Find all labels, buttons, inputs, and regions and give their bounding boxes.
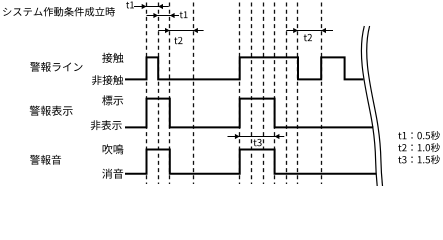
dimension t1 row2 bbox=[147, 15, 180, 17]
dimension t2 left bbox=[158, 30, 203, 32]
label t3 label bbox=[253, 139, 256, 146]
label hi-sesshoku bbox=[92, 75, 102, 85]
label t2 label right bbox=[304, 34, 307, 41]
label hi-hyouji bbox=[91, 120, 101, 130]
timing grid dashed lines bbox=[147, 3, 322, 185]
label t1 label row2 bbox=[180, 12, 183, 19]
label sesshoku bbox=[102, 53, 112, 63]
label suimei bbox=[103, 144, 113, 154]
label legend t3 bbox=[398, 156, 401, 163]
label keihou hyouji bbox=[30, 106, 40, 116]
dimension t3 bbox=[228, 136, 285, 138]
label shouon bbox=[102, 169, 112, 179]
label legend t1 bbox=[398, 132, 401, 139]
waveform keihou hyouji (alarm display signal) bbox=[125, 99, 374, 128]
dimension t1 row1 bbox=[134, 6, 169, 8]
label keihou line bbox=[30, 62, 40, 72]
label t2 label left bbox=[174, 37, 177, 44]
label legend t2 bbox=[398, 144, 401, 151]
label title system joken bbox=[3, 8, 11, 16]
label keihou on bbox=[30, 155, 40, 165]
waveform break mark curves bbox=[361, 26, 382, 186]
waveform keihou on (alarm sound signal) bbox=[125, 150, 377, 174]
waveform keihou line (alarm line signal) bbox=[125, 57, 363, 79]
label t1 label row1 bbox=[126, 2, 129, 9]
label hyouji bbox=[102, 95, 112, 105]
dimension t2 right bbox=[286, 30, 333, 32]
